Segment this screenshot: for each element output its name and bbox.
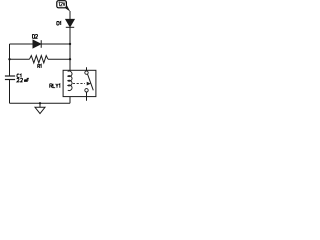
wire left rail top (corner to C1) — [9, 44, 11, 76]
wire bottom rail — [10, 102, 71, 104]
label C1 value 2.2 mF — [17, 78, 29, 82]
label 12V — [59, 2, 65, 6]
wire D2 cathode to node A — [41, 43, 70, 45]
node C junction dot — [69, 58, 71, 60]
wire node C into relay coil — [69, 59, 71, 71]
node B junction dot (left R1 tee) — [8, 58, 10, 60]
wire left rail bottom (C1 to bottom rail) — [9, 80, 11, 104]
relay contact bottom stub — [86, 92, 88, 101]
label C1 — [17, 74, 21, 78]
ground — [35, 103, 45, 113]
wire D1 to node A — [69, 27, 71, 44]
relay linkage dashed — [73, 83, 85, 85]
diode D2 — [33, 40, 41, 48]
power flag 12V — [57, 1, 71, 12]
label D2 — [32, 34, 37, 38]
relay linkage arrow — [87, 82, 91, 86]
relay switch blade — [88, 74, 94, 90]
wire R1 branch left lead — [10, 58, 30, 60]
node A junction dot — [69, 43, 71, 45]
wire R1 right lead to node C — [48, 58, 70, 60]
wire coil bottom to bottom rail — [69, 90, 71, 103]
relay coil — [68, 70, 72, 90]
relay contact top circle — [85, 71, 88, 74]
ground node junction dot — [39, 102, 41, 104]
resistor R1 — [30, 56, 49, 63]
wire node A to node C — [69, 44, 71, 59]
relay RLY1 box — [63, 70, 96, 96]
label RLY1 — [50, 84, 60, 88]
relay contact top stub — [86, 67, 88, 71]
capacitor C1 — [5, 76, 15, 80]
wire from flag to D1 — [69, 11, 71, 19]
label R1 — [38, 64, 41, 68]
label D1 — [57, 22, 61, 26]
relay contact bottom circle — [85, 89, 88, 92]
diode D1 — [66, 19, 74, 27]
wire top rail left (node A to D2 anode) — [10, 43, 34, 45]
